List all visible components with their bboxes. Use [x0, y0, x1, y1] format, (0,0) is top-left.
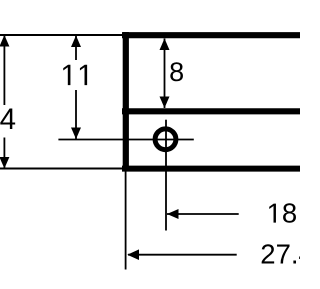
hole — [155, 129, 176, 150]
profile middle flange — [122, 108, 300, 114]
extension line 27.4 — [125, 172, 127, 270]
svg-text:4: 4 — [0, 103, 16, 136]
dimension 18 line — [167, 213, 239, 215]
dimension 11 line lower — [75, 90, 77, 140]
profile bottom flange — [122, 166, 300, 172]
dimension 11 label digit 1 — [63, 65, 70, 85]
dimension 11 arrowhead up — [71, 36, 81, 48]
hole vertical centerline — [165, 120, 167, 231]
dimension 11 line upper — [75, 35, 77, 60]
dimension 8 arrowhead up — [160, 39, 170, 51]
dimension 27.4 arrowhead left — [127, 249, 139, 260]
dimension 11 label digit 1 second — [80, 65, 87, 85]
dimension 14 arrowhead down — [0, 157, 9, 169]
dimension 14 arrowhead up — [0, 35, 9, 47]
profile web — [123, 32, 129, 172]
svg-text:8: 8 — [282, 198, 297, 229]
extension line bottom-left — [0, 168, 124, 170]
dimension 8 line — [164, 39, 166, 109]
hole horizontal centerline — [58, 139, 193, 141]
dimension 14 line lower — [3, 138, 5, 169]
dimension 27.4 line — [128, 254, 237, 256]
dimension 14 line upper — [3, 35, 5, 105]
profile top flange — [122, 32, 300, 38]
svg-text:8: 8 — [169, 57, 184, 87]
dimension 8 arrowhead down — [160, 97, 170, 109]
dimension 11 arrowhead down — [71, 128, 81, 140]
extension line top — [0, 34, 122, 36]
svg-text:27.4: 27.4 — [260, 239, 300, 270]
dimension 18 label digit 1 — [269, 204, 276, 223]
dimension 18 arrowhead left — [167, 209, 179, 219]
